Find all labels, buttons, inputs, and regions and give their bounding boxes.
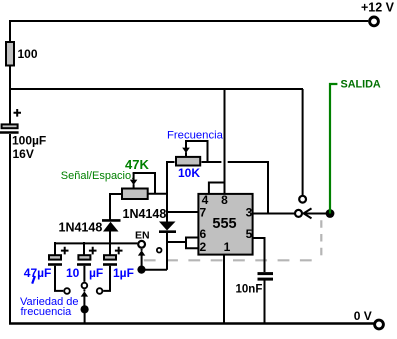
selector S1 contact left [64,288,70,294]
resistor R1 [6,42,14,66]
wire C5 to ground [264,281,266,324]
selector S1 contact right [97,288,103,294]
svg-text:555: 555 [212,216,236,232]
wire pin5 [254,238,265,272]
svg-text:47µF: 47µF [24,266,52,280]
capacitor C3 top plate [78,255,90,259]
wire upper contact to Vcc rail [302,89,304,196]
svg-text:+12 V: +12 V [361,1,395,15]
wire R2 right end to column [149,193,168,195]
diode D1 cathode bar [102,219,121,222]
svg-text:7: 7 [199,206,206,220]
capacitor C4 bottom plate [103,263,117,266]
capacitor C2 47uF wire top [54,242,56,255]
wire column D2 lower [166,232,168,270]
switch S2 common junction dot [137,266,145,274]
svg-text:1N4148: 1N4148 [123,207,167,221]
diode D2 triangle [159,222,176,231]
wire column D2 upper [166,194,168,222]
svg-text:SALIDA: SALIDA [341,79,381,91]
svg-text:100: 100 [18,47,38,61]
capacitor C1 bottom plate [0,131,19,134]
wire R3 right end (gap at crossing) [202,162,269,214]
junction dot SALIDA [326,209,335,218]
wire pin3 [254,213,295,215]
wire Vcc rail y89 [9,88,303,90]
wire pin4 jog [209,183,225,194]
svg-text:8: 8 [221,193,228,207]
wire ground rail 0V [9,322,374,324]
IC U1 555 body [198,194,252,255]
switch S2 EN contact [138,241,145,248]
capacitor C4 top plate [104,255,116,259]
wire R3 wiper to right end [185,141,208,162]
capacitor C4 plus [115,247,123,255]
mechanical linkage dashed vertical [320,220,322,256]
svg-text:Frecuencia: Frecuencia [167,130,224,142]
mechanical linkage dashed horizontal [144,259,322,261]
svg-text:3: 3 [246,206,253,220]
svg-text:1µF: 1µF [113,266,134,280]
wire S2 common to column [142,269,168,271]
diode D1 triangle [103,222,119,232]
wire SALIDA green [330,84,337,214]
wire resistor to C1 [9,67,11,124]
capacitor C3 plus [89,247,97,255]
diode D2 cathode bar [159,230,176,233]
svg-text:10nF: 10nF [236,283,263,295]
svg-text:1N4148: 1N4148 [59,221,103,235]
wire D1 to rail and C4 [109,232,111,256]
svg-text:6: 6 [199,227,206,241]
wire C1 to ground rail [9,134,11,324]
capacitor C3 10uF wire top [83,242,85,255]
switch S3 lower contact [295,210,302,217]
wire R3 left end to column [167,162,175,194]
svg-text:100µF: 100µF [12,134,46,148]
svg-text:10K: 10K [178,166,200,180]
svg-text:10: 10 [66,266,80,280]
selector S1 contact middle [82,283,88,289]
wire bracket to column [167,241,186,243]
potentiometer R2 47K body [122,189,148,200]
capacitor C5 bottom plate [258,278,274,281]
switch S2 wiper arrow [141,249,143,266]
R2 wiper arrow [133,173,135,188]
terminal +12V [370,17,379,26]
selector S1 wiper arrow [83,289,85,306]
wire R2 wiper to right end [133,173,155,194]
wire C3 to selector [83,266,85,282]
svg-text:0 V: 0 V [354,309,372,323]
terminal 0V [375,320,384,329]
capacitor C2 top plate [49,255,61,259]
capacitor C1 100uF top plate [2,124,18,128]
wire pin8 column from rail [224,89,226,193]
R3 wiper arrow [185,141,187,156]
selector S1 common dot [81,305,89,313]
svg-text:1: 1 [224,240,231,254]
wire +12V top rail [10,21,368,41]
wire R2 left end down [110,194,121,220]
wire pin1 to ground [223,256,225,324]
wire EN rail [55,242,138,244]
svg-text:µF: µF [89,266,103,280]
wire pin7 [167,211,198,213]
svg-text:16V: 16V [13,147,34,161]
svg-text:EN: EN [135,229,150,241]
wire pin6/2 bracket [186,238,198,249]
svg-text:Señal/Espacio.: Señal/Espacio. [61,170,134,182]
switch S3 wiper arrow [304,208,328,218]
capacitor C4 1uF wire top [109,242,111,255]
svg-text:5: 5 [246,227,253,241]
capacitor C3 bottom plate [77,263,91,266]
capacitor C1 plus mark [14,109,22,117]
wire C4 to selector [103,266,110,291]
switch S3 upper contact [299,196,306,203]
wire S1 common to ground [84,309,86,323]
potentiometer R3 10K body [176,157,200,166]
47uF seven glyph tail [32,276,35,284]
capacitor C2 bottom plate [48,263,62,266]
svg-text:frecuencia: frecuencia [21,306,73,318]
svg-text:2: 2 [199,240,206,254]
wire C2 to selector [55,266,63,291]
switch S2 alternate contact [157,248,162,253]
capacitor C2 plus [61,247,69,255]
capacitor C5 top plate [258,272,274,275]
